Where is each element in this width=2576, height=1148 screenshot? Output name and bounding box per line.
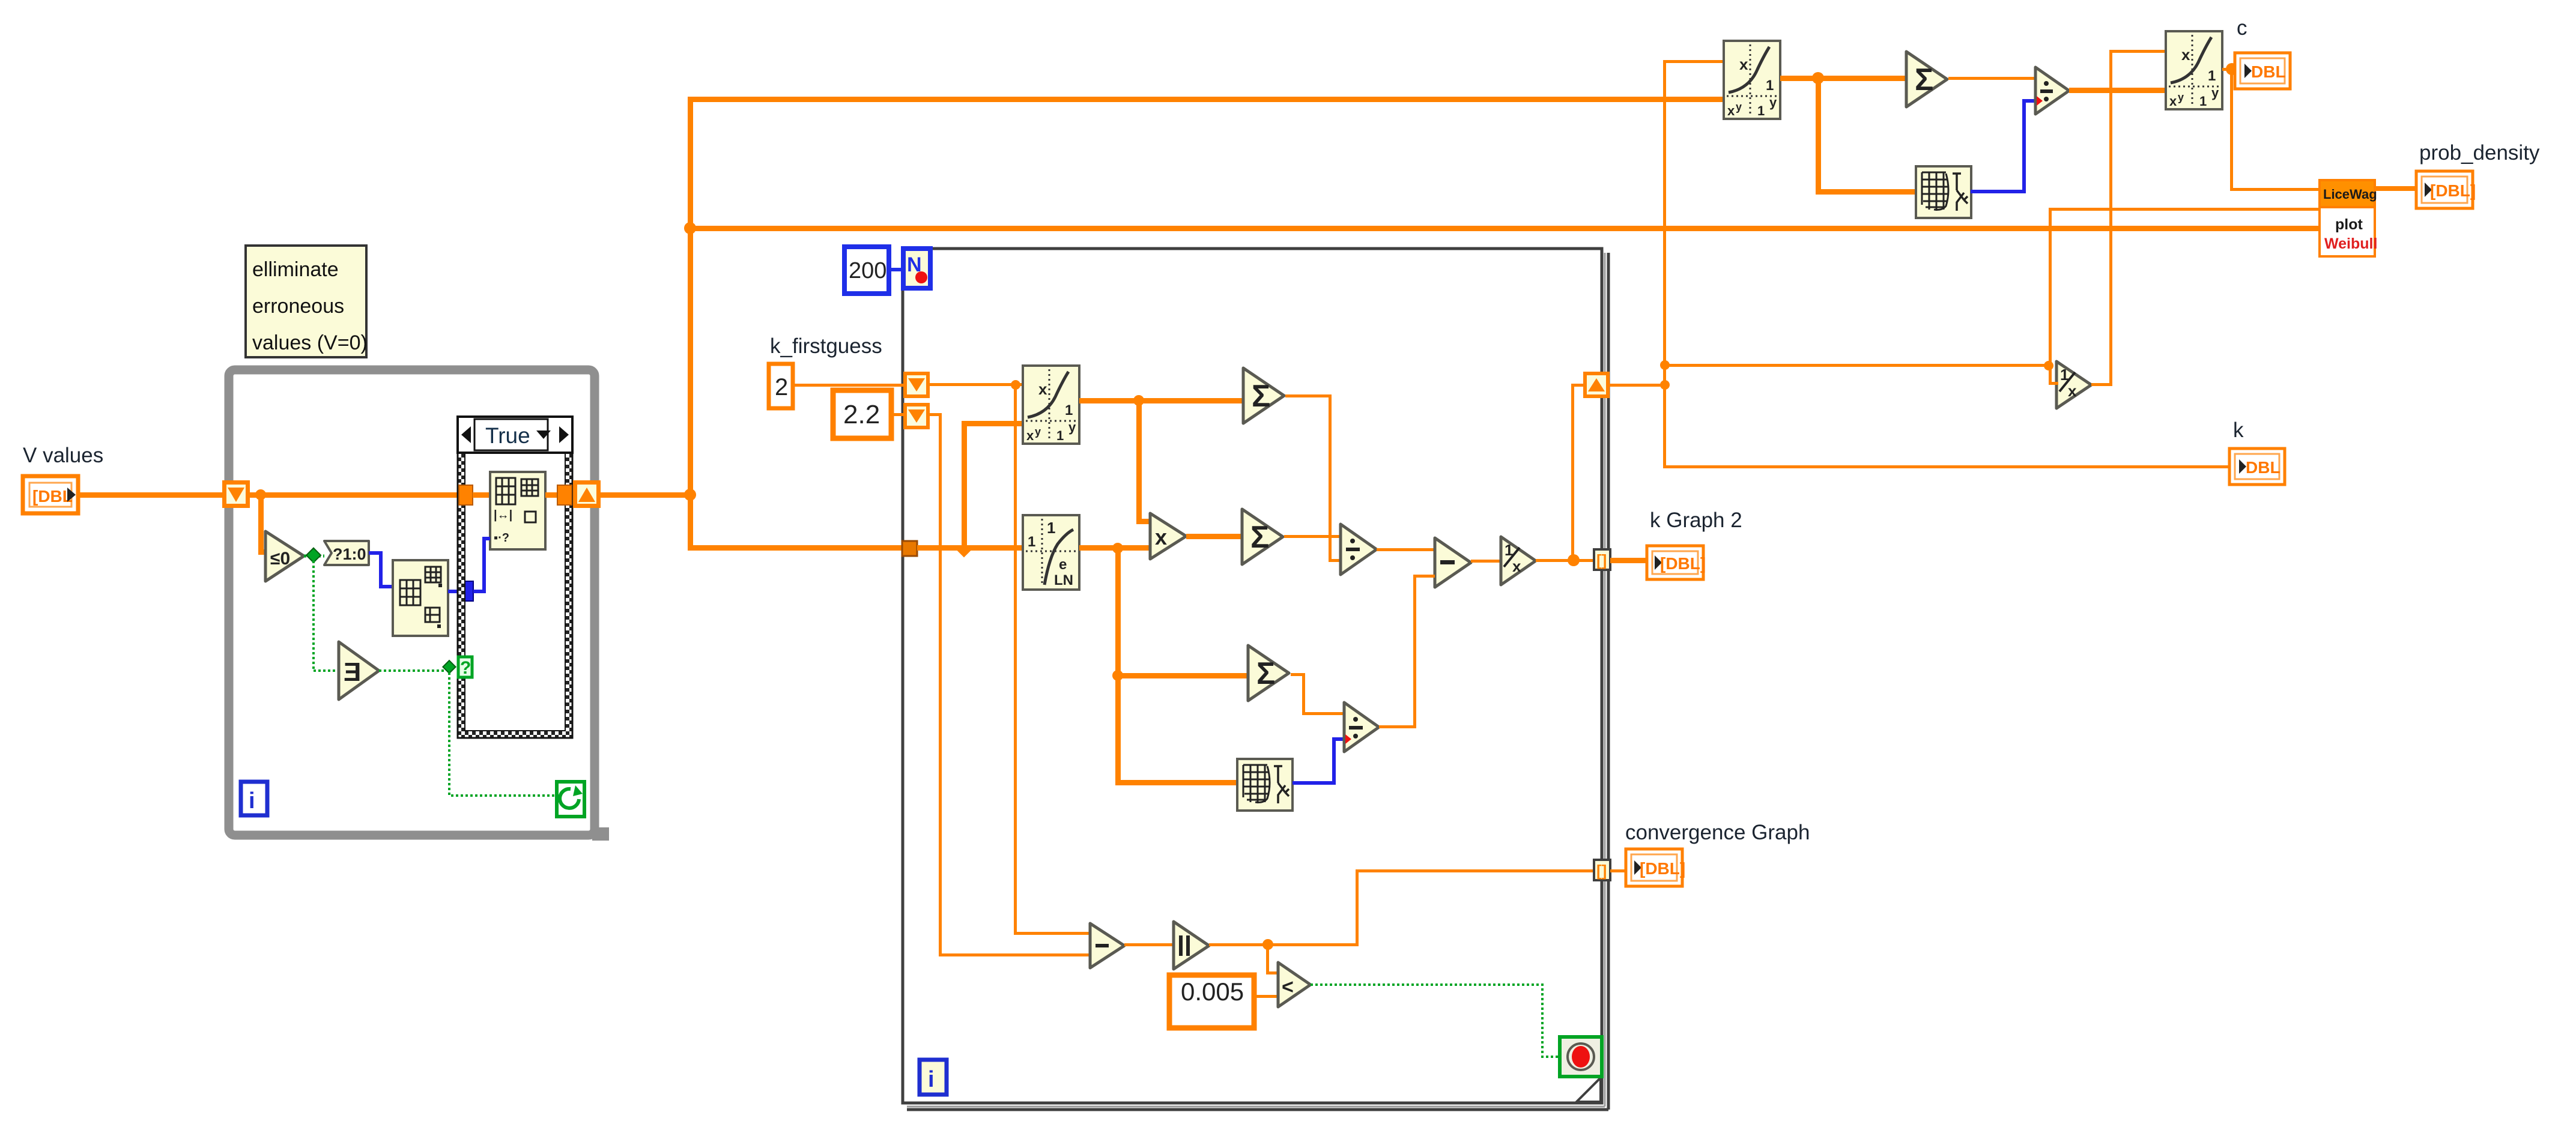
wire SR1 to power x input bbox=[930, 380, 1024, 390]
svg-text:c: c bbox=[2237, 16, 2247, 40]
wire right SR to k riser bbox=[1610, 380, 1670, 390]
case selector header True bbox=[458, 417, 572, 453]
constant 200 bbox=[844, 247, 889, 294]
wire sum2 to divide1 upper bbox=[1284, 535, 1341, 538]
svg-text:k: k bbox=[2233, 418, 2244, 442]
wire riser bottom into for loop bbox=[690, 545, 906, 551]
wire junction down to LE0 bbox=[258, 495, 268, 555]
boolean wire less-than to stop bbox=[1311, 985, 1560, 1057]
label convergence Graph bbox=[1625, 821, 1810, 844]
thin k wire down to subtract bbox=[1014, 385, 1090, 935]
wire power c to indicator c bbox=[2222, 63, 2238, 75]
indicator convergence Graph [DBL] bbox=[1626, 849, 1685, 886]
thin k wire SR2 down to subtract lower bbox=[930, 413, 1090, 956]
wire ln out to multiply bbox=[1079, 543, 1151, 554]
wire branch down to transpose2 bbox=[1816, 78, 1917, 195]
for loop input tunnel V data bbox=[902, 541, 917, 556]
svg-text:k Graph 2: k Graph 2 bbox=[1650, 509, 1742, 532]
label V values bbox=[23, 444, 103, 467]
blue wire select to array fn bbox=[369, 553, 393, 587]
wire sum4 to divide3 bbox=[1948, 77, 2035, 80]
label c bbox=[2237, 16, 2247, 40]
svg-text:2: 2 bbox=[775, 374, 788, 400]
sum 4 bbox=[1906, 52, 1947, 107]
wire while loop output to riser bbox=[601, 492, 691, 498]
wire replace icon to right tunnel bbox=[545, 492, 560, 498]
thick branch down from ln junction bbox=[1112, 548, 1248, 785]
case structure border (True case) bbox=[458, 417, 572, 738]
case left tunnel orange bbox=[459, 485, 473, 505]
svg-text:0.005: 0.005 bbox=[1181, 977, 1244, 1006]
svg-text:[DBL]: [DBL] bbox=[1640, 859, 1685, 878]
transpose array 2 bbox=[1916, 166, 1971, 218]
svg-text:erroneous: erroneous bbox=[252, 295, 344, 318]
wire subtract1 to reciprocal bbox=[1471, 560, 1501, 563]
indicator c DBL bbox=[2235, 53, 2290, 89]
label k bbox=[2233, 418, 2244, 442]
select ?1:0 bbox=[324, 541, 369, 565]
svg-text:<: < bbox=[1282, 976, 1294, 998]
for loop count terminal N bbox=[903, 249, 930, 288]
svg-text:≤0: ≤0 bbox=[270, 549, 290, 569]
wire divide2 up to subtract1 lower bbox=[1379, 575, 1435, 728]
wire reciprocal to k tunnel bbox=[1536, 554, 1596, 566]
subtract 2 (convergence) bbox=[1090, 923, 1124, 968]
svg-text:LiceWag: LiceWag bbox=[2323, 187, 2377, 202]
wire case tunnel to replace icon bbox=[473, 492, 491, 498]
divide 3 bbox=[2035, 67, 2069, 114]
case selector tunnel ? bbox=[443, 657, 472, 678]
wire power out branch down to multiply bbox=[1136, 400, 1150, 524]
indicator k Graph 2 [DBL] bbox=[1647, 546, 1706, 579]
wire sum1 to divide1 lower bbox=[1285, 394, 1341, 562]
power function in loop bbox=[1023, 366, 1079, 444]
subVI LiceWag plot Weibull bbox=[2320, 180, 2377, 256]
wire 2.2 to shift register 2 bbox=[891, 413, 903, 416]
left shift register element 1 bbox=[903, 372, 930, 398]
wire 2 to shift register 1 bbox=[793, 384, 903, 387]
indicator k DBL bbox=[2229, 449, 2285, 485]
svg-text:?: ? bbox=[460, 658, 471, 678]
indicator prob density [DBL] bbox=[2416, 171, 2476, 208]
blue wire array fn to tunnel bbox=[448, 590, 459, 593]
natural log function in loop bbox=[1023, 515, 1079, 590]
wire k riser top to power tr upper input bbox=[1663, 60, 1725, 63]
boolean wire down to continue terminal bbox=[449, 672, 557, 796]
svg-text:plot: plot bbox=[2335, 216, 2363, 233]
svg-text:Ǝ: Ǝ bbox=[344, 657, 361, 687]
k Graph2 output tunnel bbox=[1594, 549, 1610, 570]
absolute value bbox=[1174, 922, 1209, 969]
riser trunk wire bbox=[684, 98, 696, 551]
right shift register bbox=[1583, 372, 1610, 398]
subtract 1 bbox=[1435, 538, 1471, 587]
blue wire inside case to replace icon bbox=[473, 539, 490, 591]
wire tunnel to k Graph 2 indicator bbox=[1610, 558, 1647, 563]
svg-text:prob_density: prob_density bbox=[2419, 141, 2540, 165]
reciprocal 2 bbox=[2056, 361, 2091, 408]
sum 3 (bottom) bbox=[1248, 645, 1289, 701]
divide 1 bbox=[1341, 524, 1377, 575]
svg-text:k_firstguess: k_firstguess bbox=[770, 334, 882, 358]
power function c bbox=[2166, 31, 2222, 109]
control k_firstguess 2 bbox=[769, 364, 793, 408]
while loop output tunnel bbox=[573, 480, 601, 508]
blue wire transpose1 to divide2 bbox=[1293, 739, 1344, 783]
array function (delete from array) bbox=[393, 560, 448, 636]
label k Graph 2 bbox=[1650, 509, 1742, 532]
wire abs to convergence tunnel bbox=[1209, 869, 1595, 950]
svg-text:[DBL: [DBL bbox=[32, 487, 73, 506]
k feedback wire up to right shift register bbox=[1571, 384, 1584, 560]
svg-text:|↔|: |↔| bbox=[494, 509, 512, 522]
wire sum3 to divide2 bbox=[1291, 673, 1344, 715]
wire c down to plot VI bbox=[2230, 69, 2321, 191]
svg-text:[DBL]: [DBL] bbox=[1660, 554, 1706, 573]
svg-text:V values: V values bbox=[23, 444, 103, 467]
wire k up to plot VI bbox=[2049, 208, 2322, 367]
wire k riser bottom to k indicator bbox=[1663, 465, 2231, 468]
wire power tr out to sum4 bbox=[1780, 72, 1908, 84]
convergence output tunnel bbox=[1594, 860, 1610, 880]
svg-text:[]: [] bbox=[1596, 551, 1607, 569]
power function top right bbox=[1724, 41, 1780, 119]
wire subtract2 to abs bbox=[1124, 943, 1174, 946]
blue wire transpose2 to divide3 bbox=[1971, 101, 2035, 192]
case right tunnel orange bbox=[557, 485, 572, 505]
less than bbox=[1278, 962, 1311, 1007]
svg-text:[]: [] bbox=[1596, 862, 1607, 880]
wire divide3 to power c bbox=[2069, 88, 2166, 93]
svg-text:x: x bbox=[1512, 557, 1521, 575]
svg-text:Weibull: Weibull bbox=[2324, 235, 2377, 252]
for loop border bbox=[903, 249, 1608, 1110]
boolean wire down to OR-array bbox=[314, 561, 338, 671]
sum 1 bbox=[1243, 368, 1284, 423]
main V wire inside loop bbox=[917, 544, 1024, 558]
constant 0.005 bbox=[1169, 975, 1254, 1028]
wire tunnel to convergence indicator bbox=[1610, 869, 1626, 872]
wire 200 to N bbox=[889, 268, 903, 271]
svg-text:DBL: DBL bbox=[2251, 62, 2286, 81]
continue if true terminal bbox=[557, 782, 584, 817]
thick branch up to power lower input bbox=[962, 421, 1024, 548]
svg-text:i: i bbox=[249, 788, 255, 814]
wire reciprocal2 out up to power c bbox=[2091, 50, 2167, 386]
wire power out to sum1 bbox=[1079, 395, 1243, 406]
blue tunnel on case border bbox=[458, 581, 473, 601]
svg-text:▪·?: ▪·? bbox=[494, 531, 509, 545]
while loop border bbox=[229, 370, 609, 841]
replace array subset icon bbox=[490, 472, 545, 549]
comment elliminate erroneous values (V=0) bbox=[246, 246, 368, 357]
for loop iteration terminal i bbox=[920, 1060, 947, 1095]
wire riser top to power input bbox=[688, 97, 1726, 102]
wire abs junction down to less-than bbox=[1266, 944, 1278, 974]
boolean wire OR to case selector bbox=[379, 669, 446, 672]
control V values [DBL] array bbox=[23, 476, 78, 513]
or array elements bbox=[339, 642, 379, 699]
comparison LE0 (less or equal 0?) bbox=[265, 531, 304, 581]
svg-text:True: True bbox=[485, 423, 530, 448]
while loop input tunnel (auto-index) bbox=[222, 480, 250, 508]
k riser vertical bbox=[1660, 60, 1670, 468]
reciprocal 1/x bbox=[1501, 537, 1536, 585]
wire multiply to sum2 bbox=[1186, 534, 1242, 539]
wire k riser to reciprocal2 bbox=[1665, 361, 2053, 370]
wire plot VI to prob density bbox=[2375, 186, 2417, 191]
svg-text:x: x bbox=[2068, 382, 2077, 400]
divide 2 bbox=[1344, 702, 1379, 752]
svg-text:[DBL]: [DBL] bbox=[2430, 181, 2476, 200]
boolean array wire LE0 to select bbox=[304, 548, 324, 563]
svg-text:convergence Graph: convergence Graph bbox=[1625, 821, 1810, 844]
wire divide1 to subtract1 bbox=[1377, 548, 1435, 551]
svg-text:values (V=0): values (V=0) bbox=[252, 331, 368, 354]
svg-text:DBL: DBL bbox=[2246, 458, 2281, 477]
left shift register element 2 bbox=[903, 403, 930, 429]
wire V values to while loop bbox=[78, 492, 226, 498]
wire 0.005 to less-than bbox=[1254, 995, 1278, 998]
svg-text:?1:0: ?1:0 bbox=[333, 545, 366, 563]
transpose array 1 bbox=[1237, 759, 1293, 811]
svg-text:x: x bbox=[1155, 525, 1167, 549]
while loop iteration terminal i bbox=[241, 782, 267, 815]
wire riser to plot (long) bbox=[690, 226, 2322, 231]
stop condition terminal bbox=[1560, 1037, 1602, 1077]
label prob density bbox=[2419, 141, 2540, 165]
sum 2 bbox=[1242, 509, 1283, 564]
multiply bbox=[1150, 513, 1186, 559]
wire tunnel to case bbox=[250, 489, 460, 500]
svg-text:elliminate: elliminate bbox=[252, 258, 339, 281]
svg-text:i: i bbox=[928, 1067, 935, 1092]
svg-text:200: 200 bbox=[849, 258, 886, 283]
constant 2.2 bbox=[833, 390, 891, 438]
svg-text:2.2: 2.2 bbox=[843, 400, 880, 429]
label k_firstguess bbox=[770, 334, 882, 358]
wire riser into reciprocal2 bbox=[2049, 366, 2058, 385]
